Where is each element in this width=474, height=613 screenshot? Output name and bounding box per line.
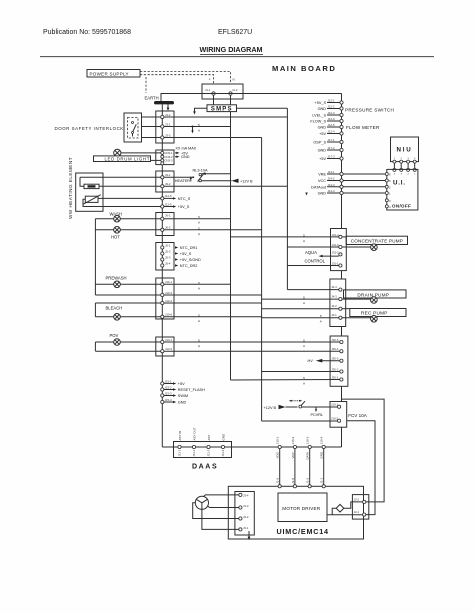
wire heater bottom to J9-2 and DC rail: [99, 185, 287, 187]
label +5V: [176, 152, 179, 154]
svg-text:J3-1: J3-1: [243, 526, 249, 530]
wire J1-1 to SMPS: [213, 94, 215, 105]
svg-text:HOT: HOT: [111, 234, 120, 239]
wire N to J4-2: [262, 308, 339, 310]
connector J16 pins on bottom edge: [278, 445, 281, 448]
svg-text:HEATER: HEATER: [175, 179, 190, 183]
wire N to J30-2: [262, 371, 340, 373]
svg-text:J4-3: J4-3: [331, 294, 337, 298]
svg-text:MAIN BOARD: MAIN BOARD: [272, 64, 336, 73]
svg-text:N: N: [233, 78, 235, 82]
NIU box: [391, 137, 419, 162]
svg-text:BLEACH: BLEACH: [106, 306, 123, 311]
connector J31: [331, 229, 347, 271]
svg-text:PCVRL: PCVRL: [311, 413, 324, 417]
svg-text:FCV 10A: FCV 10A: [348, 413, 368, 418]
svg-text:J16-4: J16-4: [320, 436, 324, 444]
svg-text:A: A: [198, 319, 200, 323]
svg-text:J10-4: J10-4: [165, 299, 172, 303]
svg-text:+5V_S: +5V_S: [314, 101, 326, 105]
svg-text:+5V: +5V: [178, 382, 185, 386]
label GND: [176, 156, 179, 158]
svg-text:J31-4: J31-4: [332, 233, 339, 237]
svg-text:+5V: +5V: [319, 157, 326, 161]
SECTION: power: [87, 70, 287, 115]
wire L bus: [230, 112, 232, 380]
SECTION: board: [161, 64, 342, 447]
connector J2: [352, 495, 368, 519]
svg-text:LED DRUM LIGHT: LED DRUM LIGHT: [105, 157, 150, 162]
svg-text:A: A: [303, 301, 305, 305]
svg-text:A: A: [320, 320, 322, 324]
door safety interlock box: [124, 113, 142, 142]
wire switch to FCV J10-1: [302, 406, 339, 408]
concentrate pump motor: [342, 246, 371, 248]
U.I. box: [387, 169, 418, 210]
svg-text:VCC: VCC: [318, 179, 326, 183]
svg-text:J1-3: J1-3: [232, 88, 238, 92]
svg-text:UIMC/EMC14: UIMC/EMC14: [277, 527, 329, 536]
NIU to UI link pins: [393, 158, 416, 175]
junction dot with down arrow: [192, 126, 194, 128]
svg-text:ON/OFF: ON/OFF: [392, 203, 411, 208]
SECTION: rightside: [231, 99, 419, 515]
U.I. left pins: [385, 173, 388, 176]
svg-text:CONTROL: CONTROL: [305, 259, 326, 264]
svg-text:NTC_S: NTC_S: [178, 197, 191, 201]
drum motor: [195, 496, 208, 509]
wire earth dashed: [145, 77, 147, 93]
svg-text:AQUA: AQUA: [305, 250, 317, 255]
svg-text:J2-1: J2-1: [354, 510, 360, 514]
wire thermistor to J12-5: [83, 199, 162, 206]
pin J3-2: [161, 115, 164, 118]
svg-text:J3-2: J3-2: [243, 515, 249, 519]
svg-text:J13-1: J13-1: [165, 338, 172, 342]
wire FCV J10-1 loop to UIMC J2-2: [341, 399, 384, 502]
connector J9: [156, 171, 174, 192]
wire N bus to FCV J10-2: [262, 420, 339, 422]
svg-text:J16-3: J16-3: [306, 436, 310, 444]
wire SMPS left stub with down arrow: [195, 108, 208, 112]
svg-text:GND: GND: [178, 401, 187, 405]
wire N to J4-3: [262, 298, 339, 300]
main board right edge segments: [341, 94, 343, 229]
svg-text:GND: GND: [318, 107, 327, 111]
svg-text:VDD: VDD: [276, 451, 280, 458]
svg-text:J31-3: J31-3: [332, 243, 339, 247]
wire N dashed from power supply: [140, 75, 214, 84]
svg-text:U.I.: U.I.: [393, 179, 406, 186]
svg-text:DOOR SAFETY INTERLOCK: DOOR SAFETY INTERLOCK: [55, 126, 124, 131]
connector J3: [156, 111, 174, 143]
svg-text:J10-2: J10-2: [331, 416, 338, 420]
svg-text:J30-5: J30-5: [331, 338, 338, 342]
svg-text:NTC_DR1: NTC_DR1: [180, 246, 198, 250]
wire concentrate feed: [231, 236, 339, 238]
wire J10-3 return: [95, 294, 261, 296]
svg-text:+12V B: +12V B: [264, 406, 277, 410]
svg-text:A: A: [303, 382, 305, 386]
svg-text:J5-3: J5-3: [165, 255, 171, 259]
svg-text:J12-6: J12-6: [165, 194, 172, 198]
svg-text:CN3-3: CN3-3: [165, 159, 174, 163]
svg-text:J9-2: J9-2: [165, 182, 171, 186]
wire SMPS right to DC rail: [237, 107, 288, 109]
svg-text:J1-5: J1-5: [291, 478, 295, 484]
svg-text:J4-1: J4-1: [331, 313, 337, 317]
svg-text:A: A: [198, 129, 200, 133]
svg-text:LVEL_S: LVEL_S: [312, 114, 326, 118]
connector J30: [330, 336, 348, 386]
heating element box: [76, 173, 103, 211]
svg-text:ASY IN: ASY IN: [178, 431, 182, 441]
svg-text:J15-1: J15-1: [165, 379, 172, 383]
svg-text:+5V: +5V: [319, 132, 326, 136]
svg-text:J30-1: J30-1: [331, 375, 338, 379]
svg-text:J12-5: J12-5: [165, 202, 172, 206]
J5 signal labels: [175, 246, 178, 248]
svg-text:J11-2: J11-2: [192, 449, 196, 456]
wire DC to J31-3: [287, 246, 338, 248]
svg-text:J15-3: J15-3: [165, 391, 172, 395]
connector FCV J10: [330, 402, 347, 428]
wire thermistor to J12-6: [98, 197, 162, 199]
SECTION: header: [40, 29, 434, 57]
svg-text:J30-3: J30-3: [331, 357, 338, 361]
svg-text:J3-3: J3-3: [165, 134, 171, 138]
connector J13: [156, 337, 174, 356]
svg-text:RESET_FLASH: RESET_FLASH: [178, 388, 205, 392]
SECTION: markers: [198, 123, 322, 386]
wire relay to L bus: [201, 173, 230, 175]
svg-text:A: A: [198, 286, 200, 290]
svg-text:J10-3: J10-3: [165, 291, 172, 295]
svg-text:J11-1: J11-1: [178, 449, 182, 456]
connector J1: [202, 84, 243, 99]
svg-text:CONCENTRATE PUMP: CONCENTRATE PUMP: [351, 239, 403, 244]
drain pump box: [344, 290, 407, 298]
door switch: [132, 122, 134, 124]
LED drum light box: [94, 156, 151, 162]
wire J1-3 down: [230, 94, 232, 105]
svg-text:WIRING DIAGRAM: WIRING DIAGRAM: [199, 45, 262, 54]
svg-text:A: A: [198, 221, 200, 225]
wire heater top to J9-1: [80, 176, 193, 178]
svg-text:SMPS: SMPS: [211, 107, 233, 113]
drain pump motor: [342, 298, 371, 300]
svg-text:J13-3: J13-3: [165, 347, 172, 351]
wire DC rail vertical: [286, 108, 288, 289]
svg-text:DATA: DATA: [306, 452, 310, 460]
svg-text:GND: GND: [318, 149, 327, 153]
thermistor: [85, 196, 98, 202]
SMPS box: [207, 105, 237, 112]
svg-text:NIU: NIU: [396, 147, 412, 154]
svg-text:J1-1: J1-1: [320, 478, 324, 484]
pin J1-3: [229, 92, 232, 95]
svg-text:J3-2: J3-2: [165, 113, 171, 117]
svg-text:XX mA MAX: XX mA MAX: [175, 147, 196, 151]
svg-text:J11-3: J11-3: [207, 449, 211, 456]
svg-text:J3-4: J3-4: [243, 493, 249, 497]
svg-text:NTC_DR2: NTC_DR2: [180, 264, 198, 268]
wire lamp to CN3-1: [121, 152, 161, 154]
motor wires: [204, 495, 239, 497]
svg-text:J2-2: J2-2: [354, 498, 360, 502]
wire N bus: [261, 138, 263, 422]
svg-text:J3-1: J3-1: [165, 123, 171, 127]
SECTION: bottom: [174, 427, 369, 540]
wire L to J30-1: [231, 379, 340, 382]
svg-text:Publication No: 5995701868: Publication No: 5995701868: [43, 29, 131, 36]
svg-text:ASY OUT: ASY OUT: [193, 427, 197, 440]
svg-text:J10-1: J10-1: [165, 280, 172, 284]
svg-text:POV: POV: [110, 333, 119, 338]
svg-text:MOTOR DRIVER: MOTOR DRIVER: [282, 506, 321, 511]
earth bar: [154, 101, 174, 104]
connector CN3: [156, 150, 174, 165]
main board bottom edge: [162, 446, 341, 448]
svg-text:DAAS: DAAS: [192, 464, 218, 471]
wire gauge markers: [198, 123, 322, 386]
pin J3-1: [161, 125, 164, 128]
svg-text:PREWASH: PREWASH: [106, 275, 127, 280]
connector J5: [156, 243, 174, 271]
svg-text:+5V_S: +5V_S: [180, 252, 192, 256]
svg-text:J9-1: J9-1: [165, 173, 171, 177]
lamp bus left vertical: [94, 219, 96, 295]
rec pump box: [350, 309, 406, 317]
svg-text:GND: GND: [181, 155, 190, 159]
SECTION: leftloads: [55, 111, 340, 405]
connector J3 motor: [235, 492, 254, 536]
LED drum light lamp: [114, 149, 121, 156]
wire interlock N to N bus: [142, 137, 262, 139]
svg-text:J16-2: J16-2: [291, 436, 295, 444]
UIMC/EMC14 box: [228, 486, 363, 539]
svg-text:EFLS627U: EFLS627U: [218, 29, 252, 36]
svg-text:+5V_S: +5V_S: [178, 205, 190, 209]
svg-text:A: A: [303, 344, 305, 348]
svg-text:J1-2: J1-2: [306, 478, 310, 484]
motor driver box: [278, 493, 327, 522]
svg-text:WW HEATING ELEMENT: WW HEATING ELEMENT: [68, 157, 73, 219]
connector J4: [330, 279, 346, 327]
svg-text:PRESSURE SWITCH: PRESSURE SWITCH: [345, 107, 394, 112]
svg-text:J1-6: J1-6: [276, 478, 280, 484]
svg-text:A: A: [198, 232, 200, 236]
wire FCV J10-2 loop to UIMC J2-1: [347, 421, 375, 515]
svg-text:VCC: VCC: [291, 451, 295, 458]
svg-text:OSP_S: OSP_S: [313, 141, 326, 145]
svg-text:J4-2: J4-2: [331, 304, 337, 308]
svg-text:+5V_S/GND: +5V_S/GND: [180, 258, 201, 262]
heater resistor: [84, 184, 99, 188]
HOT lamp: [95, 229, 261, 231]
svg-text:J10-6: J10-6: [165, 313, 172, 317]
diamond sensor: [336, 504, 344, 512]
svg-text:J30-2: J30-2: [331, 367, 338, 371]
svg-text:A: A: [198, 344, 200, 348]
svg-text:J4-4: J4-4: [331, 285, 337, 289]
rec pump motor: [342, 317, 371, 319]
svg-text:RL3-10A: RL3-10A: [193, 169, 208, 173]
svg-text:J3-3: J3-3: [243, 504, 249, 508]
svg-text:A: A: [303, 239, 305, 243]
connector J6: [156, 213, 174, 236]
svg-text:DATAout: DATAout: [311, 186, 327, 190]
svg-text:SWIM: SWIM: [178, 394, 188, 398]
pin J3-3: [161, 136, 164, 139]
svg-text:ASY: ASY: [207, 434, 211, 440]
wire bleach to J4-1: [262, 317, 339, 319]
svg-text:J15-2: J15-2: [165, 385, 172, 389]
svg-text:VRE: VRE: [318, 173, 326, 177]
svg-text:GND: GND: [320, 451, 324, 459]
FCV pilot switch: [299, 405, 302, 408]
svg-text:J30-4: J30-4: [331, 347, 338, 351]
svg-text:J6-1: J6-1: [165, 214, 171, 218]
wire L dashed from power supply: [140, 72, 231, 85]
wire +12V B: [201, 180, 231, 182]
wires J16 to UIMC: [279, 449, 281, 485]
svg-text:J5-2: J5-2: [165, 249, 171, 253]
ground arrow under J3: [248, 531, 250, 538]
pin J1-1: [212, 92, 215, 95]
svg-text:J6-2: J6-2: [165, 225, 171, 229]
svg-text:J15-4: J15-4: [165, 398, 172, 402]
svg-text:FLOW_S: FLOW_S: [310, 120, 326, 124]
svg-text:POWER SUPPLY: POWER SUPPLY: [90, 71, 129, 76]
svg-text:GND: GND: [318, 192, 327, 196]
svg-text:J31-2: J31-2: [332, 250, 339, 254]
svg-text:REC PUMP: REC PUMP: [361, 311, 388, 316]
power supply box: [87, 70, 140, 78]
connector J11 DAAS: [174, 442, 232, 458]
svg-text:J16-1: J16-1: [276, 436, 280, 444]
main board top edge: [161, 94, 342, 102]
main board left edge: [161, 104, 163, 447]
svg-text:J5-4: J5-4: [165, 261, 171, 265]
svg-text:+12V B: +12V B: [240, 179, 253, 183]
svg-text:HV: HV: [308, 359, 314, 363]
wire motor driver to J2-1: [327, 514, 362, 516]
wire interlock L: [142, 116, 288, 118]
svg-text:FLOW METER: FLOW METER: [346, 125, 380, 130]
earth stub arrow: [167, 104, 169, 108]
BLEACH lamp loop: [95, 302, 261, 304]
concentrate pump box: [346, 236, 407, 244]
svg-text:GND: GND: [222, 433, 226, 441]
wire box to CN3-3: [151, 159, 161, 161]
svg-text:EARTH: EARTH: [145, 96, 159, 101]
connector J10: [156, 278, 174, 319]
wire DC to J31-1: [287, 265, 338, 267]
svg-text:J5-1: J5-1: [165, 243, 171, 247]
wire DC to J4-4: [287, 289, 338, 291]
svg-text:GND: GND: [318, 126, 327, 130]
wire interlock mid to L bus: [142, 126, 231, 128]
svg-text:J1-1: J1-1: [205, 88, 211, 92]
svg-text:J31-1: J31-1: [332, 261, 339, 265]
svg-text:J11-4: J11-4: [221, 449, 225, 456]
